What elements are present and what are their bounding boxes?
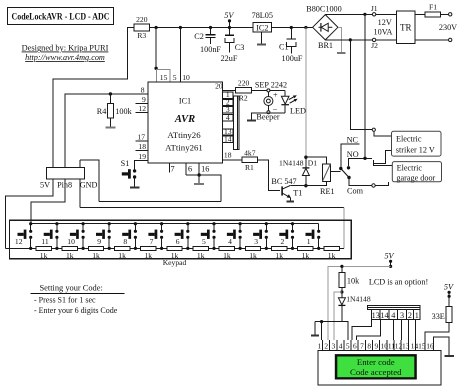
svg-text:IC1: IC1 (179, 96, 191, 105)
svg-text:http://www.avr.4mg.com: http://www.avr.4mg.com (25, 53, 105, 62)
svg-text:12: 12 (15, 237, 23, 246)
svg-text:9: 9 (374, 342, 378, 351)
svg-text:LCD is an option!: LCD is an option! (369, 277, 428, 286)
svg-text:1k: 1k (275, 251, 283, 260)
regulator IC2 78L05 (252, 11, 273, 33)
svg-text:- Press S1 for 1 sec: - Press S1 for 1 sec (34, 295, 96, 304)
svg-text:R4: R4 (97, 107, 107, 116)
svg-text:18: 18 (224, 150, 232, 159)
wire NO contact (349, 158, 372, 166)
wire R2 to beeper/LED (252, 89, 286, 91)
svg-text:5V: 5V (224, 11, 234, 20)
svg-text:9: 9 (97, 237, 101, 246)
node relay top (304, 156, 307, 159)
wire GND vertical (79, 160, 81, 208)
node VO tap (340, 290, 343, 293)
svg-text:8: 8 (123, 237, 127, 246)
LCD pin stubs (323, 340, 434, 350)
svg-text:15: 15 (418, 342, 426, 351)
resistor 1k #1 (36, 247, 51, 260)
svg-text:4: 4 (339, 342, 343, 351)
svg-text:+: + (273, 90, 278, 99)
svg-text:6: 6 (176, 237, 180, 246)
svg-text:5: 5 (202, 237, 206, 246)
svg-text:Pin8: Pin8 (57, 181, 72, 190)
capacitor C1 (279, 26, 303, 63)
svg-text:220: 220 (238, 79, 250, 88)
button 10 (67, 224, 84, 250)
pin 7 (170, 163, 175, 174)
svg-text:8: 8 (367, 342, 371, 351)
LCD module (318, 350, 441, 385)
title box (8, 8, 114, 25)
svg-text:8: 8 (141, 85, 145, 94)
node rail 2 (291, 222, 294, 225)
svg-text:19: 19 (138, 152, 146, 161)
resistor 1k #10 (272, 247, 287, 260)
ground pin6/16 (194, 175, 204, 184)
rectifier BR1 B80C1000 (306, 5, 342, 50)
svg-text:BC 547: BC 547 (271, 177, 296, 186)
header pin 3 (398, 309, 407, 319)
button 6 (175, 224, 190, 250)
svg-text:1k: 1k (40, 251, 48, 260)
svg-text:10k: 10k (347, 276, 360, 285)
button 8 (122, 224, 137, 250)
header pin 13 (371, 309, 380, 319)
svg-text:5: 5 (173, 73, 177, 82)
resistor 1k #12 (324, 247, 339, 260)
node +12V junction (304, 26, 307, 29)
node rail 12 (29, 222, 32, 225)
wire keypad top rail (31, 223, 319, 225)
note setting code (30, 284, 124, 316)
wire 5V down to keypad (6, 179, 53, 249)
svg-text:100uF: 100uF (282, 54, 303, 63)
wire pin10 drop (179, 28, 181, 83)
svg-text:1k: 1k (66, 251, 74, 260)
svg-text:78L05: 78L05 (252, 11, 273, 20)
svg-text:14: 14 (380, 311, 388, 320)
svg-text:7: 7 (150, 237, 154, 246)
wire gnd rail to keypad chain (343, 207, 345, 248)
wire TR bottom to 230V (415, 39, 448, 41)
wire J1 down to NO (364, 14, 366, 158)
svg-text:1N4148: 1N4148 (279, 158, 304, 167)
wire +12V down (305, 28, 307, 158)
svg-text:D1: D1 (308, 159, 317, 168)
button 2 (279, 224, 294, 250)
node D1 bottom (304, 184, 307, 187)
pin 13 box (223, 127, 234, 136)
wire BR1 top to J1 (325, 13, 372, 15)
button 3 (253, 224, 268, 250)
node J1 (363, 13, 366, 16)
capacitor C2 (194, 26, 221, 54)
svg-text:3: 3 (254, 237, 258, 246)
wire header3 to lcd12 (401, 320, 403, 341)
button 7 (148, 224, 163, 250)
wire 5V lcd rail (328, 266, 391, 340)
button 4 (227, 224, 242, 250)
svg-text:Beeper: Beeper (256, 113, 279, 122)
svg-text:Electric: Electric (396, 134, 422, 143)
svg-text:R3: R3 (137, 31, 146, 40)
pin 16 (199, 163, 209, 175)
svg-text:18: 18 (138, 142, 146, 151)
wire beeper/LED gnd (252, 113, 286, 120)
wire VO to pin3 (334, 292, 342, 340)
pin 18 (136, 142, 148, 151)
svg-text:NC: NC (347, 135, 359, 144)
switch lever (339, 166, 351, 179)
wire pin1 drop (321, 322, 323, 340)
ground R4 (106, 126, 116, 128)
ground T1 (287, 198, 294, 202)
svg-text:100nF: 100nF (200, 45, 221, 54)
svg-text:13: 13 (372, 311, 380, 320)
svg-text:LED: LED (290, 107, 306, 116)
svg-text:SEP 2242: SEP 2242 (255, 81, 287, 90)
svg-text:20: 20 (215, 82, 223, 91)
svg-text:3: 3 (400, 311, 404, 320)
svg-text:RE1: RE1 (320, 187, 335, 196)
resistor 1k #8 (219, 247, 234, 260)
svg-text:IC2: IC2 (256, 24, 268, 33)
header pin 14 (380, 309, 389, 319)
box electric garage door (392, 162, 441, 183)
svg-text:9: 9 (142, 95, 146, 104)
svg-text:5V: 5V (40, 181, 50, 190)
node 5V 33E (444, 283, 454, 298)
connector bar right of IC1 (234, 96, 239, 150)
diode D2 1N4148 (338, 292, 370, 322)
keypad box (10, 220, 352, 258)
svg-text:6: 6 (188, 164, 192, 173)
pin 3 box (223, 105, 234, 114)
resistor 1k #6 (167, 247, 182, 260)
ground BR1 minus (337, 27, 346, 53)
pin 2 box (223, 98, 234, 107)
ground S1 (130, 186, 139, 188)
svg-text:1k: 1k (145, 251, 153, 260)
connector bar LCD (367, 306, 420, 310)
node rail 6 (186, 222, 189, 225)
svg-text:R2: R2 (239, 94, 248, 103)
LCD pin numbers (317, 342, 434, 351)
svg-text:1: 1 (415, 311, 419, 320)
svg-text:16: 16 (426, 342, 434, 351)
pin 4 box (223, 113, 234, 122)
svg-text:R1: R1 (245, 163, 254, 172)
svg-text:1k: 1k (328, 251, 336, 260)
resistor 1k #2 (62, 247, 77, 260)
svg-text:Setting your Code:: Setting your Code: (40, 284, 103, 293)
ground beeper (247, 119, 256, 121)
svg-text:14: 14 (224, 134, 232, 143)
svg-text:7: 7 (170, 164, 174, 173)
resistor 1k #4 (114, 247, 129, 260)
button 1 (306, 224, 321, 250)
node rail 7 (160, 222, 163, 225)
svg-text:100k: 100k (115, 107, 132, 116)
resistor 10k (339, 266, 360, 292)
wire header4 to lcd11 (393, 320, 395, 341)
ground lcd left (311, 322, 319, 336)
capacitor C3 (221, 28, 245, 64)
svg-text:1k: 1k (302, 251, 310, 260)
wire gnd bus under IC (186, 175, 221, 202)
svg-text:1k: 1k (197, 251, 205, 260)
resistor 1k #9 (245, 247, 260, 260)
svg-text:11: 11 (41, 237, 49, 246)
transformer TR (374, 11, 415, 44)
svg-text:13: 13 (402, 342, 410, 351)
svg-text:1k: 1k (249, 251, 257, 260)
svg-text:1k: 1k (223, 251, 231, 260)
node NO-J1 (363, 157, 366, 160)
svg-text:C1: C1 (279, 42, 289, 51)
svg-text:6: 6 (353, 342, 357, 351)
node rail-pin10 (179, 26, 182, 29)
relay RE1 (320, 164, 335, 196)
svg-text:5V: 5V (384, 251, 394, 260)
wire lcd16 to gnd (434, 337, 450, 355)
svg-text:Designed by: Kripa PURI: Designed by: Kripa PURI (22, 44, 109, 53)
node rail 9 (108, 222, 111, 225)
op IC1 AVR ATtiny26 (148, 82, 223, 163)
box electric striker (392, 131, 442, 156)
svg-text:GND: GND (80, 181, 98, 190)
svg-text:2: 2 (324, 342, 328, 351)
svg-text:10VA: 10VA (374, 28, 393, 37)
svg-text:Com: Com (347, 187, 364, 196)
author note (22, 44, 109, 63)
svg-text:garage door: garage door (396, 173, 435, 182)
resistor 33E (432, 296, 453, 322)
wire Com to garage box (375, 182, 388, 186)
svg-text:4: 4 (228, 237, 232, 246)
svg-text:C3: C3 (235, 43, 245, 52)
svg-text:Electric: Electric (397, 163, 423, 172)
node rail-pin15 (155, 26, 158, 29)
resistor R3 (134, 15, 150, 40)
node rail 11 (55, 222, 58, 225)
wire relay to lever (330, 171, 340, 173)
svg-text:12: 12 (138, 104, 146, 113)
wire keypad chain rail (6, 247, 344, 249)
wire J2 down to striker (350, 40, 372, 130)
wire R1 to T1 base (258, 160, 281, 191)
svg-text:2: 2 (281, 237, 285, 246)
svg-text:4k7: 4k7 (244, 148, 256, 157)
svg-text:4: 4 (226, 113, 230, 122)
pin 1 box (223, 90, 234, 99)
svg-text:C2: C2 (194, 32, 204, 41)
wire to relay coil top (306, 157, 326, 164)
wire gnd rail lower (80, 206, 344, 208)
svg-text:230V: 230V (439, 23, 457, 32)
node rail 4 (239, 222, 242, 225)
resistor 1k #11 (298, 247, 313, 260)
pin 6 (186, 163, 192, 175)
resistor 1k #7 (193, 247, 208, 260)
wire header1 to lcd14 (415, 320, 417, 341)
pin 9 (136, 95, 148, 104)
svg-text:5: 5 (346, 342, 350, 351)
svg-text:3: 3 (332, 342, 336, 351)
svg-text:B80C1000: B80C1000 (306, 5, 342, 14)
header pin 1 (413, 309, 420, 319)
svg-text:4: 4 (391, 311, 395, 320)
svg-text:5V: 5V (444, 283, 454, 292)
pin 17 (136, 133, 148, 142)
svg-text:Keypad: Keypad (163, 258, 187, 267)
wire 33E to lcd15 (425, 322, 449, 340)
wire lcd gnd line (315, 322, 348, 340)
svg-text:CodeLockAVR - LCD - ADC: CodeLockAVR - LCD - ADC (12, 12, 110, 23)
pin 14 box (223, 134, 234, 143)
svg-text:22uF: 22uF (221, 54, 238, 63)
svg-text:striker 12 V: striker 12 V (396, 146, 435, 155)
LED D (281, 90, 306, 115)
wire J1 to TR (376, 13, 397, 15)
wire 5V rail to R3 (53, 28, 134, 168)
svg-text:15: 15 (160, 73, 168, 82)
svg-text:Code accepted: Code accepted (350, 367, 402, 377)
resistor R1 4k7 (242, 148, 258, 172)
pin 12 (136, 104, 148, 113)
node 5V LCD (384, 251, 394, 268)
resistor 1k #3 (88, 247, 103, 260)
button 11 (41, 224, 58, 250)
resistor R4 100k (97, 94, 133, 127)
node J2 (349, 38, 352, 41)
wire BR1 bottom to J2 (325, 39, 372, 41)
wire Com drop (349, 178, 372, 186)
svg-text:10: 10 (182, 73, 190, 82)
wire gnd rail upper (99, 201, 221, 203)
diode D1 1N4148 (279, 157, 317, 186)
node pin15 (154, 67, 157, 70)
wire 5V rail (150, 27, 254, 29)
resistor R2 220 (236, 79, 252, 103)
node rail 5 (212, 222, 215, 225)
svg-text:1k: 1k (92, 251, 100, 260)
wire J2 to TR (376, 39, 397, 41)
svg-text:NO: NO (347, 150, 359, 159)
svg-text:TR: TR (400, 22, 412, 32)
svg-text:ATtiny26: ATtiny26 (167, 130, 201, 140)
wire coil bottom to T1 collector (290, 182, 326, 186)
svg-text:AVR: AVR (174, 114, 195, 125)
node 10k top (340, 265, 343, 268)
wire pin18 to R1 (223, 159, 243, 161)
wire NO to striker box (374, 160, 393, 166)
node 5V terminal (224, 11, 234, 29)
svg-text:1N4148: 1N4148 (346, 294, 371, 303)
pin 19 (135, 152, 148, 171)
wire pin8 to connector (65, 94, 148, 168)
node rail 10 (82, 222, 85, 225)
svg-text:1k: 1k (118, 251, 126, 260)
svg-text:J1: J1 (371, 4, 378, 13)
fuse F1 (415, 3, 452, 17)
svg-text:220: 220 (136, 15, 148, 24)
switch S1 (121, 159, 137, 186)
wire gnd U-link (80, 160, 99, 202)
wire IC2 out to BR1 (272, 27, 313, 29)
wire header2 to lcd13 (408, 320, 410, 341)
wire header14 to lcd6 (357, 320, 381, 341)
wire pin15 drop (155, 28, 157, 70)
svg-text:12V: 12V (378, 18, 392, 27)
transistor T1 BC547 (271, 177, 302, 198)
ground IC2 (257, 32, 266, 44)
header pin 2 (407, 309, 414, 319)
wire pin20 to R2 (223, 89, 236, 91)
svg-text:1: 1 (317, 342, 321, 351)
svg-text:17: 17 (137, 133, 145, 142)
svg-text:10: 10 (67, 237, 75, 246)
svg-text:F1: F1 (429, 3, 437, 12)
node rail 8 (134, 222, 137, 225)
wire header13 to lcd5 (352, 320, 372, 341)
ground lcd right (445, 355, 454, 357)
svg-text:J2: J2 (371, 41, 378, 50)
svg-text:7: 7 (360, 342, 364, 351)
node rail 3 (265, 222, 268, 225)
wire Pin8 down to keypad (31, 179, 65, 224)
svg-text:- Enter your 6 digits Code: - Enter your 6 digits Code (34, 306, 118, 315)
pin 15 box (157, 70, 170, 83)
node pin1 (320, 320, 323, 323)
button 5 (201, 224, 216, 250)
beeper SEP2242 (256, 89, 279, 122)
svg-text:ATtiny261: ATtiny261 (165, 142, 203, 152)
wire terminal to striker box (374, 131, 392, 136)
svg-text:1: 1 (307, 237, 311, 246)
svg-text:Enter code: Enter code (357, 357, 395, 367)
connector Pin8 box (40, 168, 98, 190)
resistor 1k #5 (141, 247, 156, 260)
svg-text:16: 16 (201, 164, 209, 173)
svg-text:BR1: BR1 (318, 41, 333, 50)
svg-text:S1: S1 (121, 159, 130, 168)
header pin 4 (389, 309, 398, 319)
button 12 (15, 224, 32, 250)
svg-text:33E: 33E (432, 312, 445, 321)
svg-text:2: 2 (408, 311, 412, 320)
node R4 top (109, 92, 112, 95)
svg-text:T1: T1 (293, 189, 302, 198)
wire NC contact (341, 144, 360, 167)
button 9 (96, 224, 111, 250)
